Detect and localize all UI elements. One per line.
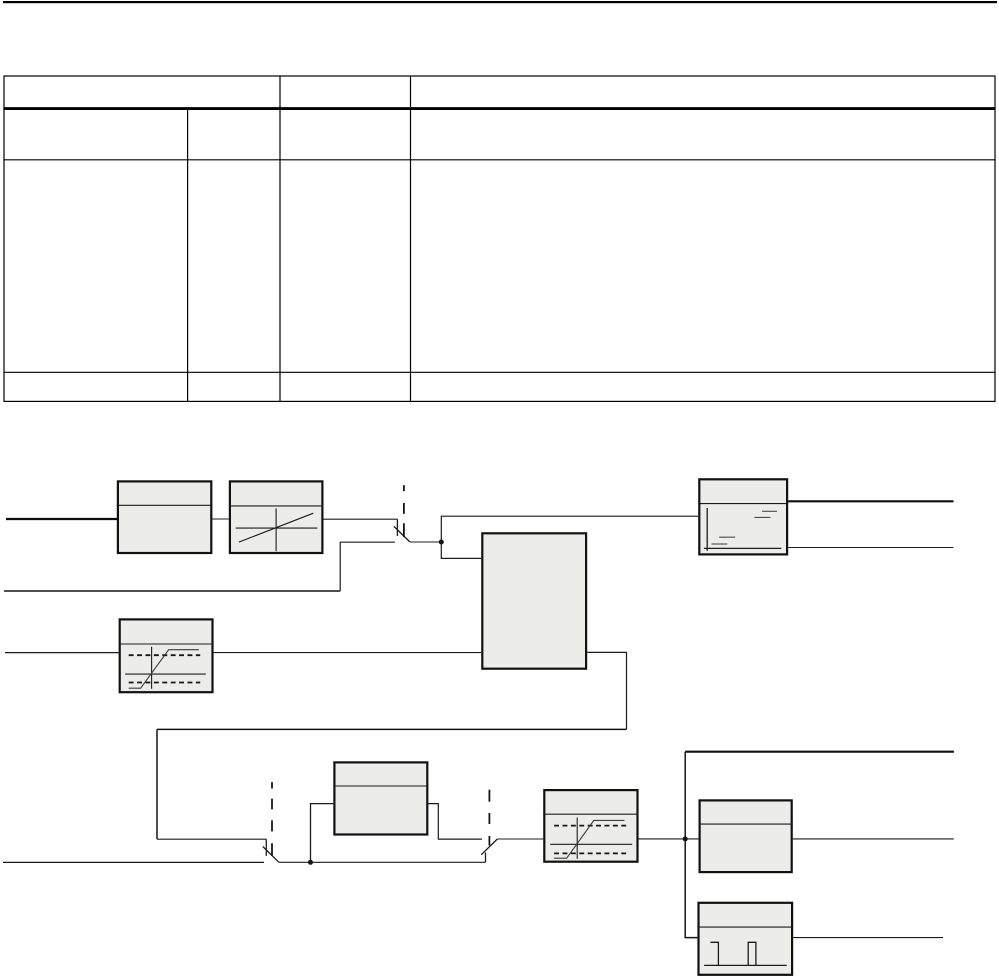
wire PT1 output lower [788, 547, 953, 549]
table row line 2 [3, 371, 995, 373]
function block B5 (limiter) [543, 790, 638, 862]
table header thick rule [3, 107, 995, 110]
wire S1 output to junction J1 [410, 541, 442, 543]
wire B2 to switch S1 [324, 518, 398, 520]
page top rule [3, 1, 997, 3]
wire input 2 riser [340, 542, 395, 591]
table column line C [410, 76, 412, 401]
function block B7 (pulse generator) [697, 903, 793, 975]
switch S2 control line (dashed) [271, 782, 273, 856]
wire B7 output [793, 937, 943, 939]
function block B6 [699, 800, 793, 872]
wire J1 up to PT1 block input [441, 516, 698, 542]
table row line 1 [3, 159, 995, 161]
wire feedback horizontal [157, 728, 627, 730]
junction J2 [308, 860, 313, 865]
wire J3 up riser [684, 752, 686, 839]
junction J3 [683, 836, 688, 841]
wire J2 up into block B4 [311, 804, 334, 863]
switch S1 control line (dashed) [403, 485, 405, 537]
table column line A (body only) [187, 109, 189, 402]
switch S2 fixed contact post [265, 839, 267, 856]
switch S2 arm [263, 847, 279, 863]
wire output top right (thick) [685, 751, 954, 753]
switch S1 fixed contact post [396, 519, 398, 536]
wire input 3 (into block B3) [5, 652, 119, 654]
wire big block output down [587, 652, 626, 729]
wire feedback riser down [156, 729, 158, 839]
function block B2 (linear characteristic) [229, 481, 324, 553]
wire J3 down riser [685, 839, 697, 938]
wire input 2 [4, 590, 340, 592]
wire B1 to B2 [212, 518, 228, 520]
wire feedback to switch S2 [157, 838, 266, 840]
wire PT1 output upper (thick) [788, 500, 953, 502]
wire B6 output [793, 838, 954, 840]
wire S3 output to block B5 [498, 838, 544, 840]
switch S3 arm [481, 839, 497, 855]
wire B5 output to junction J3 and block B6 [639, 838, 699, 840]
junction J1 [439, 540, 444, 545]
wire J2 to switch S3 (rail) [311, 861, 486, 863]
wire input 4 (bottom rail) [3, 861, 264, 863]
switch S3 fixed contact post [485, 853, 487, 863]
table column line B [279, 76, 281, 401]
function block B3 (ramp limiter) [119, 619, 214, 692]
function block B4 [333, 762, 428, 834]
wire input 1 (thick, into block B1) [6, 518, 118, 520]
big function block U1 [482, 533, 586, 668]
switch S1 arm [394, 526, 410, 542]
wire J1 down into big block [441, 542, 481, 558]
table outer border [4, 76, 995, 401]
wire B4 output jog to S3 [428, 804, 482, 840]
wire S2 output to junction J2 [279, 861, 311, 863]
wire B3 to big block [214, 652, 482, 654]
function block PT1 (smoothing / staircase) [698, 479, 788, 554]
switch S3 control line (dashed) [488, 790, 490, 846]
function block B1 [117, 481, 213, 553]
